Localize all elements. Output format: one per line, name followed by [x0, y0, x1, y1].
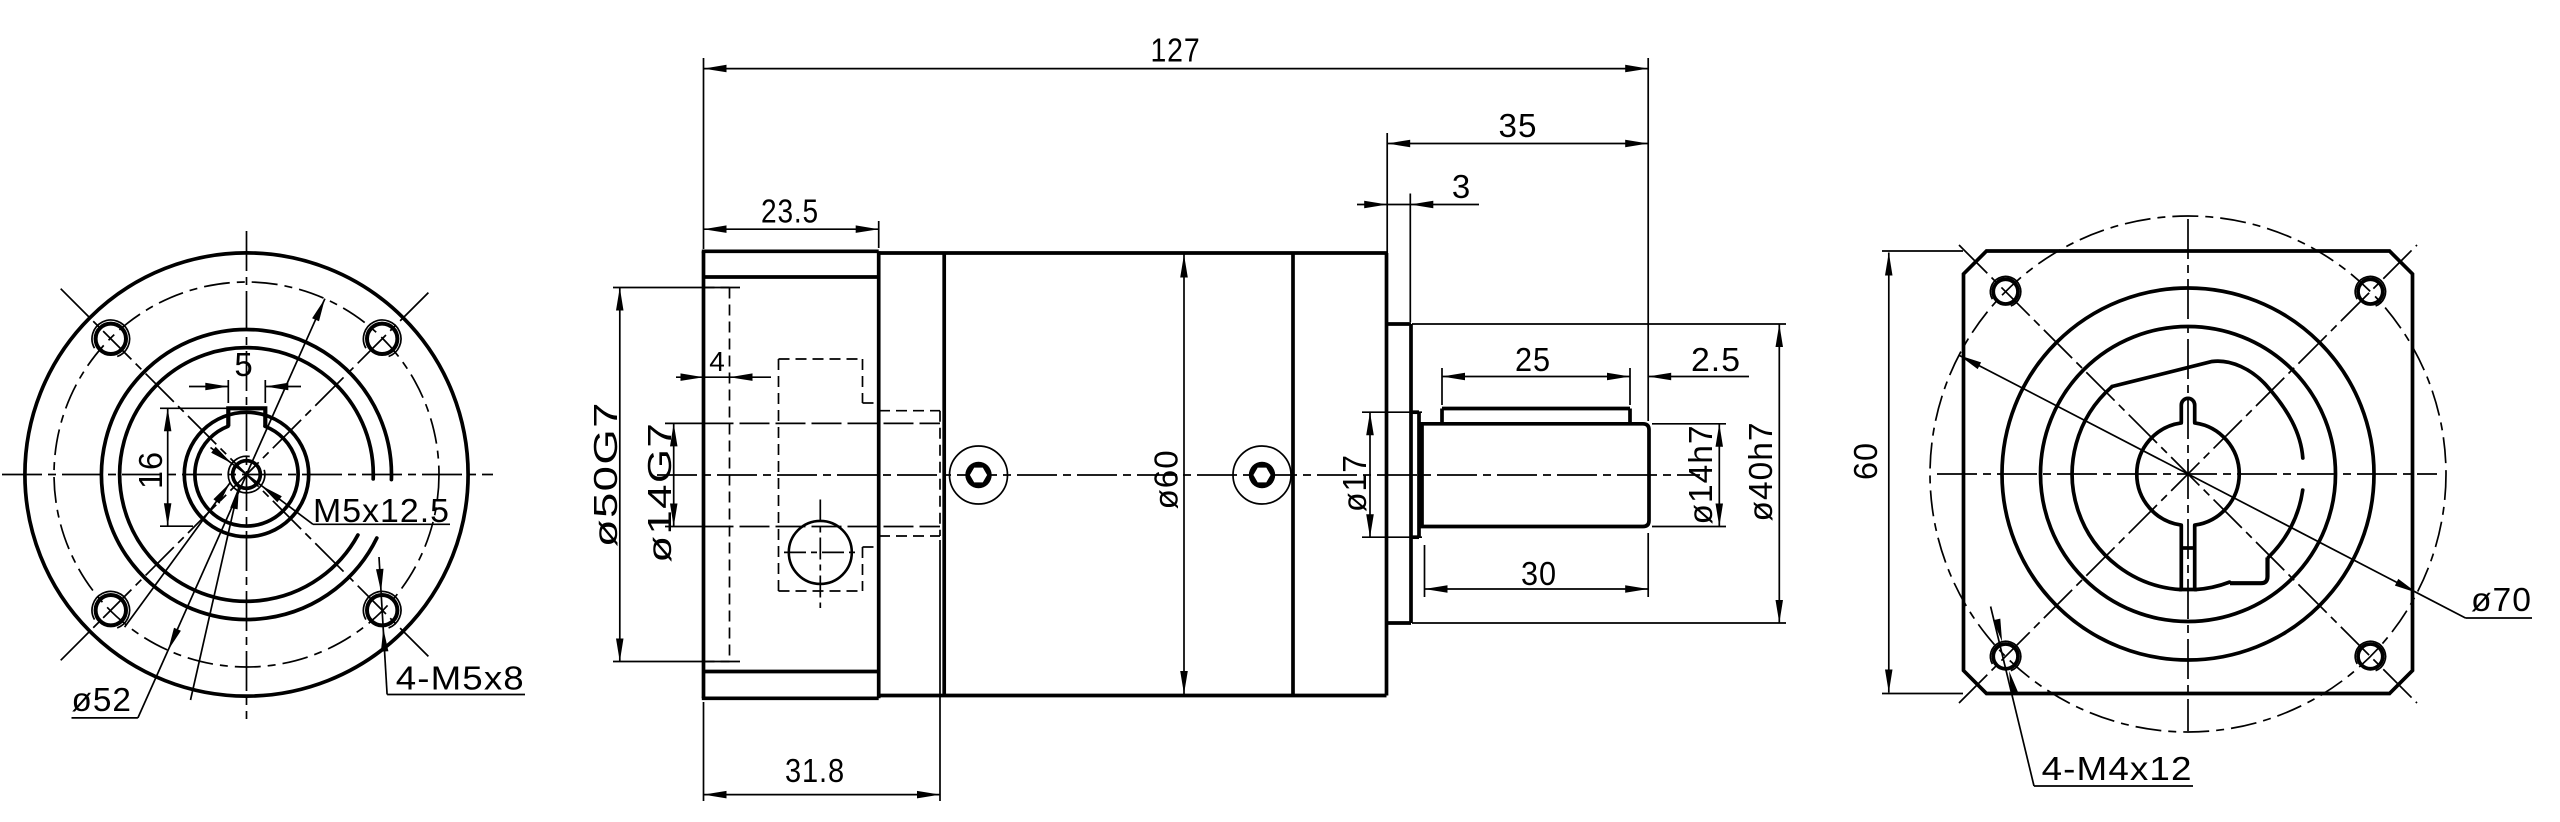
- leader 4-M4x12 arrow bottom: [2009, 671, 2018, 694]
- dim D60 arrows: [1180, 255, 1188, 278]
- dim 3 tail left: [1357, 204, 1387, 206]
- svg-text:5: 5: [234, 346, 253, 383]
- dim D17 extension bottom: [1362, 536, 1422, 538]
- right bolt hole 3 M4 thread circle: [1990, 641, 2020, 670]
- leader D70 underline: [2466, 617, 2533, 619]
- body top outline: [879, 251, 1387, 255]
- right view boss circle D40: [2041, 327, 2336, 622]
- leader 4-M4x12 arrow top: [1993, 619, 2002, 642]
- svg-text:60: 60: [1847, 442, 1884, 480]
- collar right face: [1417, 412, 1421, 537]
- left bolt hole 3 M5 core circle: [96, 595, 126, 625]
- dim 31.8 extension right: [939, 540, 941, 801]
- dim 2.5 line: [1648, 376, 1749, 378]
- left view clamp slot arc inner r127: [120, 348, 374, 602]
- left view center hole M5 core circle: [233, 461, 261, 489]
- left view bolt circle D52 dashed: [54, 282, 439, 667]
- dim 16 extension top: [160, 407, 227, 409]
- dim 127 extension right: [1647, 58, 1649, 421]
- dim 16 arrow top: [164, 408, 172, 431]
- dim 30 extension right: [1647, 533, 1649, 597]
- leader 4-M5x8 arrow top: [376, 569, 384, 592]
- right view vertical centerline: [2187, 219, 2189, 731]
- dim 35 extension left: [1386, 133, 1388, 322]
- section screw 1 head: [965, 462, 991, 488]
- leader M5x12.5 arrow upper-left: [211, 447, 232, 464]
- dim 2.5 arrow: [1648, 373, 1671, 380]
- input bore dashed top: [704, 422, 941, 424]
- right bolt hole 1 M4 thread circle: [1990, 276, 2020, 305]
- right view slit left line: [2179, 525, 2183, 589]
- dim 5 line+arrow right: [265, 386, 301, 388]
- left view bore circle D14: [195, 426, 298, 526]
- leader M5x12.5 line: [211, 448, 314, 525]
- svg-text:23.5: 23.5: [761, 193, 819, 230]
- dim 23.5 line: [704, 228, 879, 230]
- section screw 1 outer circle: [950, 446, 1008, 504]
- dim D14h7 line: [1718, 424, 1720, 527]
- svg-text:35: 35: [1499, 107, 1538, 144]
- leader D52 arrow lower-left: [168, 628, 181, 651]
- dim 60 extension top: [1882, 250, 1963, 252]
- dim 30 arrows: [1425, 585, 1448, 593]
- right view clamp circle piece right: [2268, 490, 2302, 557]
- right view horizontal centerline: [1937, 473, 2437, 475]
- output boss D40 top: [1387, 322, 1412, 326]
- dim D40h7 arrows: [1776, 324, 1784, 347]
- gear dashed step top vert: [862, 359, 864, 403]
- dim 31.8 extension left: [703, 702, 705, 801]
- joint flange/adapter: [877, 251, 881, 698]
- right bolt hole 1 M4 core circle: [1993, 279, 2018, 304]
- dim 25 line: [1442, 376, 1630, 378]
- right view clamp cam profile: [2112, 361, 2303, 458]
- second extra leader arrow: [213, 483, 230, 504]
- dim D14G7 extension bottom: [665, 526, 702, 528]
- joint adapter/body: [942, 253, 946, 696]
- right view housing circle D50: [2002, 288, 2374, 660]
- dim 60 line: [1888, 253, 1890, 693]
- gear dashed step bottom vert: [862, 547, 864, 591]
- right view square flange outline: [1964, 251, 2413, 694]
- dim 31.8 line: [704, 794, 941, 796]
- leader D70 line: [1959, 355, 2466, 618]
- left bolt hole 4 M5 thread circle: [363, 591, 401, 627]
- flange top outline: [702, 249, 879, 253]
- dim D60 line: [1183, 255, 1185, 695]
- dim D17 extension top: [1362, 411, 1422, 413]
- svg-text:30: 30: [1521, 555, 1557, 592]
- left view clamp slot arc outer r145: [101, 330, 391, 620]
- leader 4-M4x12 underline: [2034, 785, 2193, 787]
- flange inner bottom line: [704, 670, 879, 674]
- left view flange outer circle D60: [25, 253, 468, 696]
- left view keyway box: [228, 408, 265, 426]
- left view diagonal centerline BL-TR: [61, 289, 433, 661]
- leader M5x12.5 underline: [313, 523, 450, 525]
- dim D14h7 arrows: [1716, 424, 1724, 447]
- leader 4-M5x8 line: [379, 557, 387, 695]
- svg-text:ø52: ø52: [72, 681, 133, 718]
- dim 31.8 arrows: [704, 791, 727, 799]
- right bolt hole 4 M4 thread circle: [2355, 641, 2385, 670]
- dim D17 line: [1369, 412, 1371, 537]
- svg-text:ø14h7: ø14h7: [1682, 425, 1719, 525]
- collar D17 bottom: [1411, 535, 1419, 539]
- right bolt hole 2 M4 core circle: [2358, 279, 2383, 304]
- right bolt hole 3 M4 core circle: [1993, 644, 2018, 669]
- left bolt hole 2 M5 core circle: [367, 324, 397, 354]
- cavity dashed top: [879, 410, 940, 412]
- section screw 2 outer circle: [1233, 446, 1291, 504]
- dim D14G7 line: [673, 423, 675, 526]
- cavity dashed right: [939, 411, 941, 536]
- planet pin vertical centerline: [819, 500, 821, 609]
- right bolt hole 2 M4 thread circle: [2355, 276, 2385, 305]
- joint body/rear: [1291, 253, 1295, 696]
- dim 127 extension left: [703, 58, 705, 249]
- svg-text:4: 4: [709, 346, 726, 377]
- left bolt hole 4 M5 core circle: [367, 595, 397, 625]
- shaft key left end: [1440, 409, 1444, 424]
- shaft D14 outline: [1422, 424, 1649, 527]
- dim 3 tail right: [1410, 204, 1479, 206]
- flange inner top line: [704, 275, 879, 279]
- flange bottom outline: [702, 696, 879, 700]
- dim 127 line: [704, 68, 1649, 70]
- right view slit crossbar: [2181, 546, 2194, 550]
- second extra leader line: [125, 483, 230, 627]
- dim 3 line: [1387, 204, 1410, 206]
- dim 25 extension left: [1441, 368, 1443, 405]
- right view slit right line: [2193, 525, 2197, 589]
- svg-text:ø17: ø17: [1336, 454, 1373, 512]
- extra leader arrow: [230, 486, 239, 509]
- leader D70 arrow top-left: [1959, 355, 1981, 369]
- dim 30 line: [1425, 588, 1649, 590]
- dim 35 arrows: [1387, 140, 1410, 147]
- dim 16 arrow bottom: [164, 503, 172, 526]
- dim 5 extension left: [227, 380, 229, 403]
- left bolt hole 1 M5 thread circle: [92, 320, 130, 356]
- gear dashed top: [779, 358, 863, 360]
- svg-text:ø70: ø70: [2471, 581, 2532, 618]
- shaft key top line: [1442, 407, 1630, 411]
- svg-text:16: 16: [132, 451, 169, 489]
- section screw 2 head: [1249, 462, 1275, 488]
- right view diagonal TL-BR: [1959, 245, 2417, 703]
- right view diagonal BL-TR: [1959, 245, 2417, 703]
- gear dashed step top horiz: [863, 402, 879, 404]
- leader D52 underline: [72, 717, 138, 719]
- dim D40h7 extension bottom: [1412, 622, 1786, 624]
- right view slit bottom cap: [2179, 588, 2197, 592]
- svg-text:ø14G7: ø14G7: [641, 422, 678, 563]
- shaft key right end: [1628, 409, 1632, 424]
- right view clamp screw notch: [2230, 558, 2268, 584]
- dim 4 arrows: [681, 373, 704, 381]
- svg-text:ø50G7: ø50G7: [587, 401, 624, 547]
- leader D70 arrow bottom-right: [2395, 579, 2417, 593]
- right view top slot: [2181, 398, 2194, 422]
- left view diagonal centerline TL-BR: [61, 289, 433, 661]
- dim 23.5 arrows: [704, 225, 727, 233]
- dim 23.5 extension right: [878, 221, 880, 248]
- dim D17 arrows: [1366, 412, 1374, 435]
- right view bore arc left: [2137, 423, 2181, 525]
- dim D14h7 extension bottom: [1652, 526, 1726, 528]
- left view vertical centerline: [246, 231, 248, 719]
- leader 4-M4x12 line: [1991, 607, 2034, 787]
- leader M5x12.5 arrow lower-right: [261, 486, 282, 503]
- dim D50G7 line: [619, 288, 621, 662]
- dim D50G7 extension top: [613, 287, 740, 289]
- left face vertical: [702, 251, 706, 698]
- dim 60 extension bottom: [1882, 693, 1963, 695]
- body bottom outline: [879, 694, 1387, 698]
- dim D40h7 extension top: [1412, 323, 1786, 325]
- gear dashed step bottom horiz: [863, 546, 879, 548]
- output boss D40 bottom: [1387, 621, 1412, 625]
- left bolt hole 1 M5 core circle: [96, 324, 126, 354]
- svg-text:ø60: ø60: [1148, 449, 1185, 509]
- dim 16 line: [167, 408, 169, 526]
- svg-text:31.8: 31.8: [785, 752, 845, 789]
- right face vertical: [1385, 253, 1389, 696]
- cavity dashed bottom: [879, 535, 940, 537]
- input bore dashed bottom: [704, 526, 941, 528]
- dim 4 tail right: [730, 376, 772, 378]
- dim 60 arrows: [1885, 253, 1893, 276]
- svg-text:ø40h7: ø40h7: [1742, 422, 1779, 522]
- left bolt hole 3 M5 thread circle: [92, 591, 130, 627]
- planet pin horizontal centerline: [784, 551, 857, 553]
- svg-text:4-M5x8: 4-M5x8: [396, 660, 525, 697]
- svg-text:127: 127: [1151, 32, 1201, 69]
- dim 3 extension right: [1409, 194, 1411, 323]
- dim D14G7 extension top: [665, 422, 702, 424]
- left view horizontal centerline: [2, 474, 493, 476]
- dim 3 arrows: [1364, 201, 1387, 208]
- right view clamp circle piece lower-right: [2195, 582, 2229, 590]
- dim 127 arrows: [704, 65, 727, 73]
- dim D50G7 arrows: [616, 288, 624, 311]
- svg-text:M5x12.5: M5x12.5: [313, 492, 450, 529]
- left view center hole M5 thread arc: [228, 456, 265, 493]
- leader 4-M5x8 arrow bottom: [381, 629, 389, 652]
- right view bore arc right: [2195, 423, 2239, 525]
- dim 5 line+arrow left: [189, 386, 228, 388]
- leader D52 arrow upper-right: [312, 299, 325, 322]
- dim 4 tail left: [676, 376, 704, 378]
- svg-text:3: 3: [1452, 168, 1471, 205]
- dim D14h7 extension top: [1652, 423, 1726, 425]
- output boss right face: [1409, 324, 1413, 623]
- collar D17 top: [1411, 410, 1419, 414]
- planet pin circle: [789, 521, 852, 584]
- dim 16 extension bottom: [160, 525, 193, 527]
- middle axis centerline: [657, 474, 1700, 476]
- svg-text:4-M4x12: 4-M4x12: [2042, 750, 2193, 787]
- recess dashed top: [704, 287, 730, 289]
- dim 25 extension right: [1629, 368, 1631, 405]
- dim 35 line: [1387, 143, 1648, 145]
- dim 4 line: [704, 376, 730, 378]
- left bolt hole 2 M5 thread circle: [363, 320, 401, 356]
- right bolt hole 4 M4 core circle: [2358, 644, 2383, 669]
- extra leader line to center hole: [191, 486, 240, 700]
- leader 4-M5x8 underline: [387, 694, 525, 696]
- svg-text:25: 25: [1515, 341, 1551, 378]
- recess dashed bottom: [704, 661, 730, 663]
- dim 5 extension right: [264, 380, 266, 403]
- right view bolt circle D70 dashed: [1930, 216, 2446, 732]
- svg-text:2.5: 2.5: [1691, 341, 1741, 378]
- dim D40h7 line: [1778, 324, 1780, 623]
- dim D50G7 extension bottom: [613, 661, 740, 663]
- right view clamp circle piece main: [2072, 387, 2181, 590]
- dim D14G7 arrows: [670, 423, 678, 446]
- dim 30 extension left: [1424, 545, 1426, 597]
- dim 25 arrows: [1442, 373, 1465, 380]
- left view hub circle D17: [184, 412, 308, 536]
- leader D52 line: [138, 299, 325, 718]
- gear dashed bottom: [779, 590, 863, 592]
- recess dashed vertical: [729, 288, 731, 662]
- gear dashed left: [778, 359, 780, 591]
